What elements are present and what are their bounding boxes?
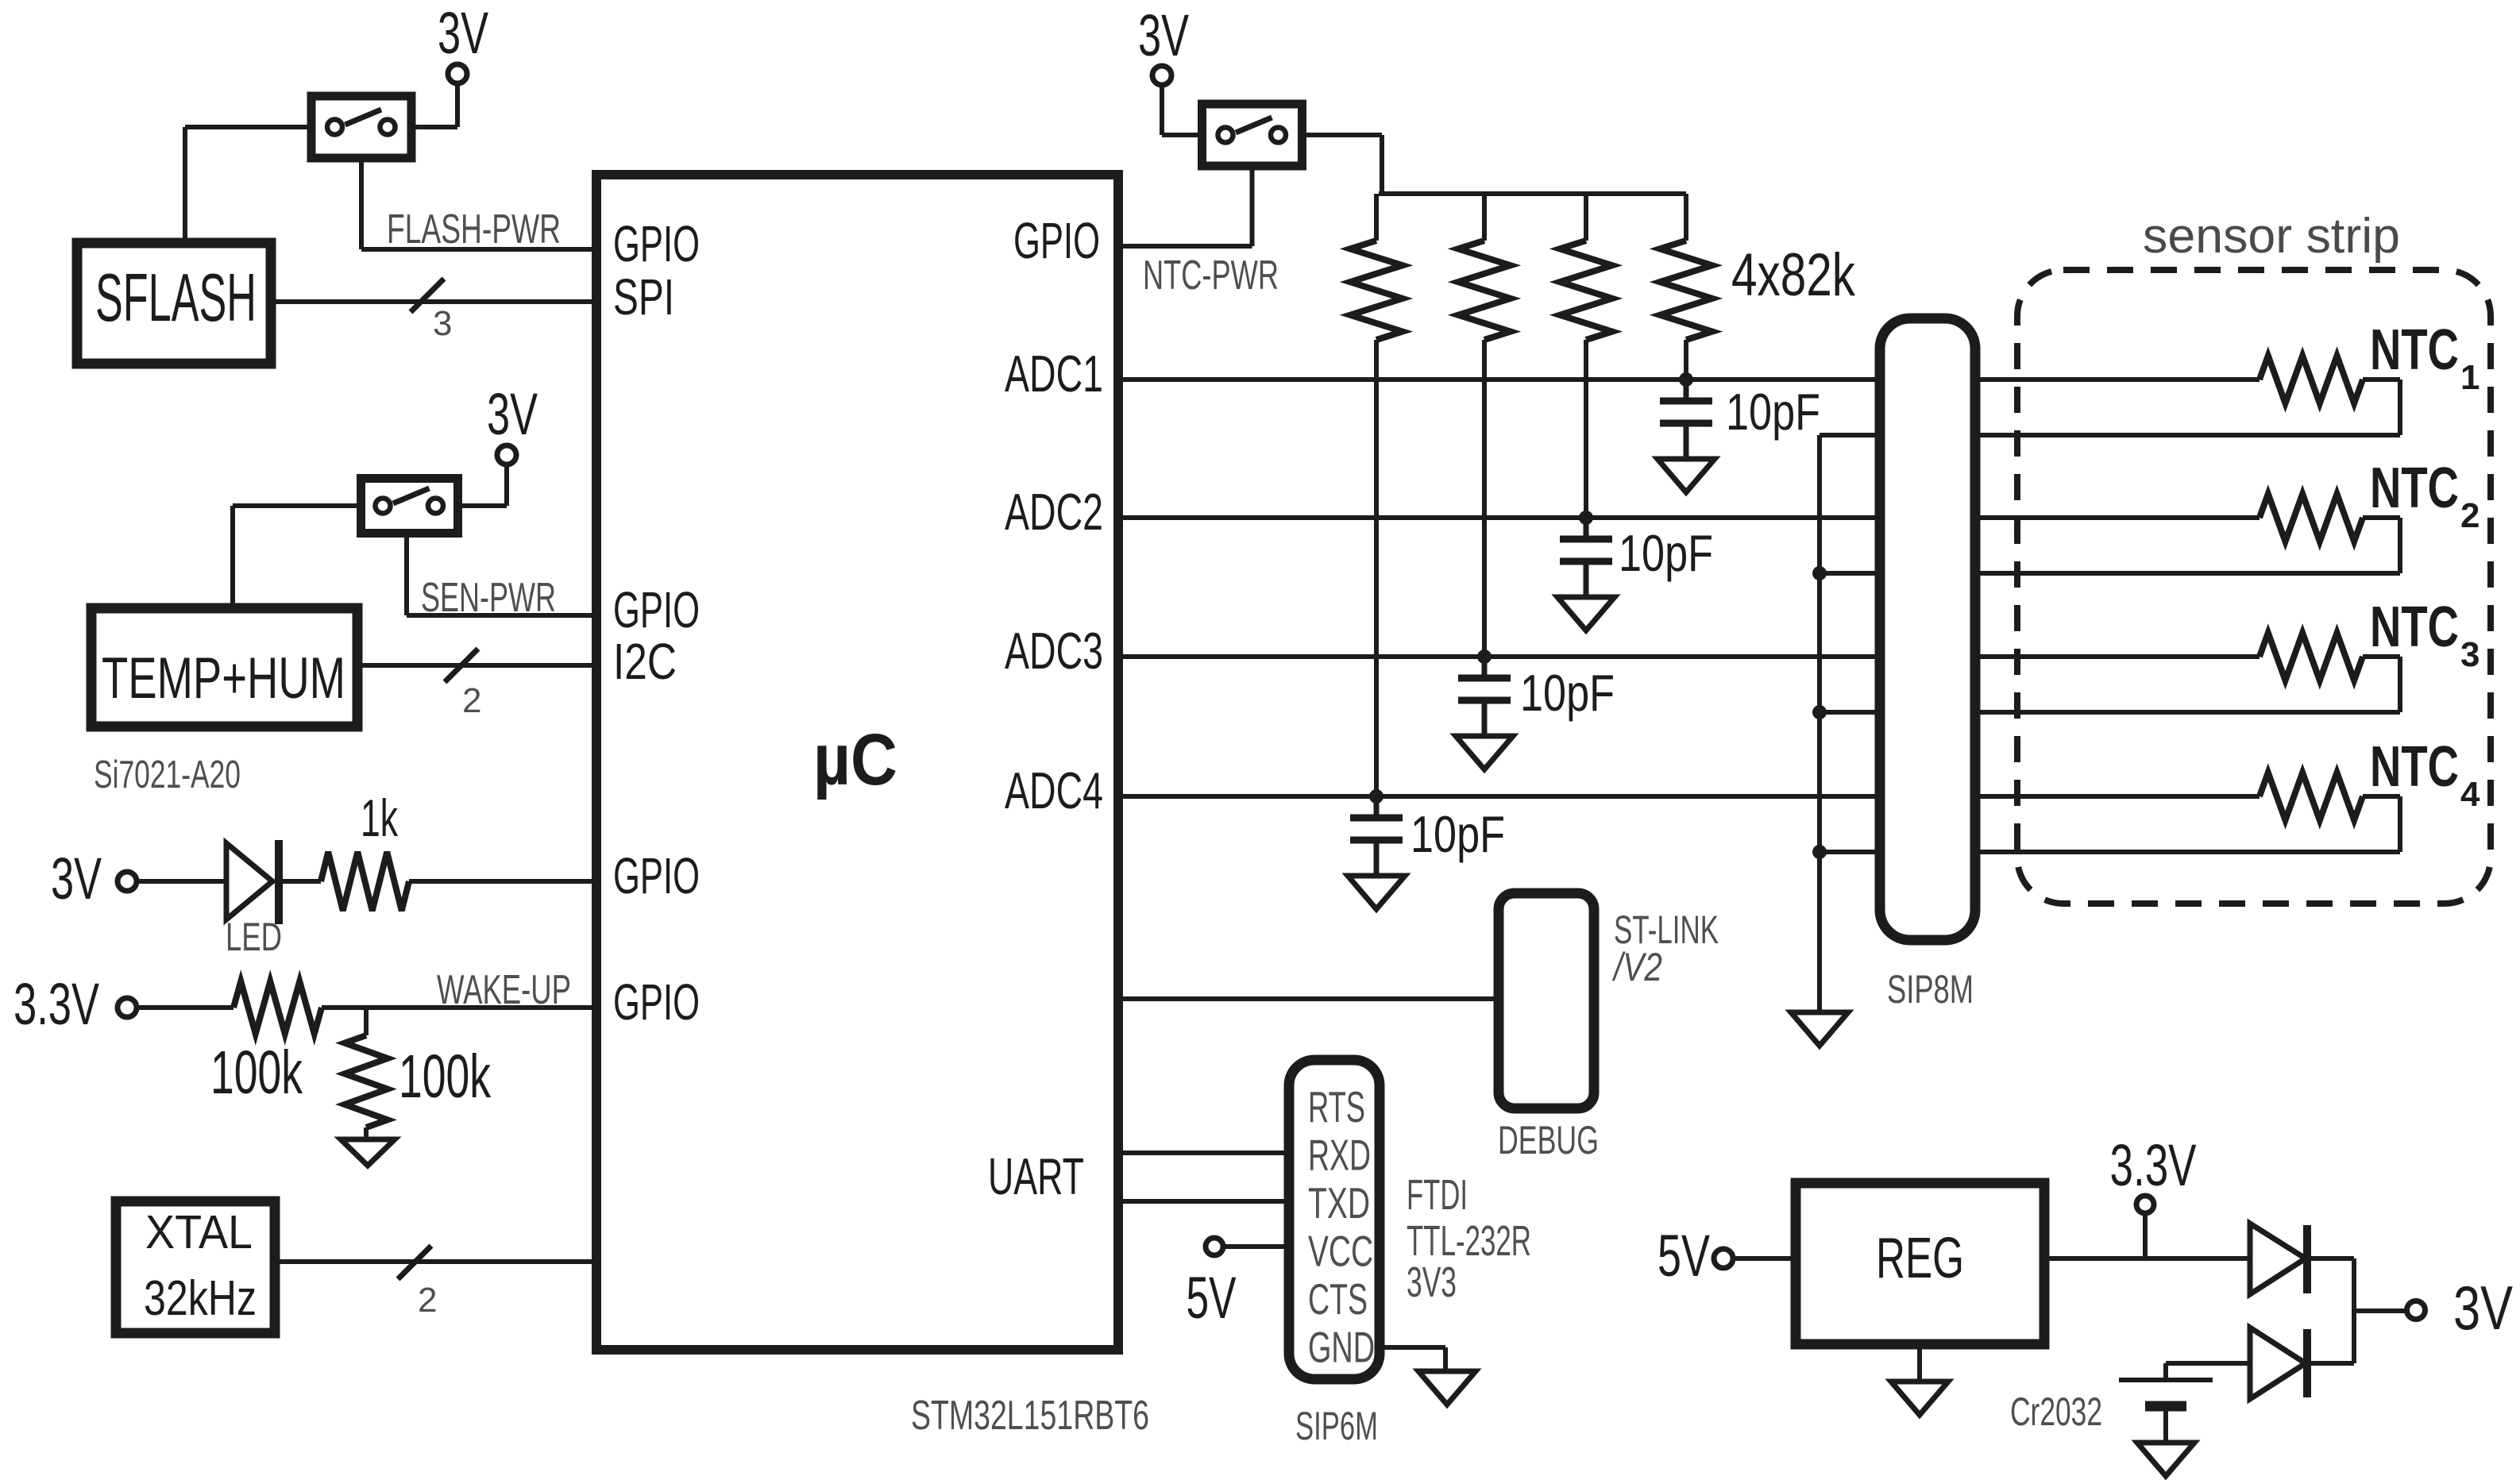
svg-text:2: 2 xyxy=(2460,496,2479,535)
svg-text:GPIO: GPIO xyxy=(1013,212,1100,269)
svg-text:Cr2032: Cr2032 xyxy=(2010,1389,2102,1434)
svg-text:32kHz: 32kHz xyxy=(144,1271,257,1326)
svg-text:4: 4 xyxy=(2460,775,2480,814)
svg-text:NTC: NTC xyxy=(2370,595,2459,659)
svg-text:Si7021-A20: Si7021-A20 xyxy=(94,753,241,796)
svg-text:/V2: /V2 xyxy=(1612,945,1663,989)
svg-text:GPIO: GPIO xyxy=(613,847,700,904)
svg-text:10pF: 10pF xyxy=(1411,805,1505,863)
svg-text:100k: 100k xyxy=(399,1043,491,1111)
svg-text:NTC: NTC xyxy=(2370,457,2459,520)
svg-text:3V: 3V xyxy=(2453,1273,2513,1343)
svg-text:2: 2 xyxy=(462,681,481,720)
svg-text:3: 3 xyxy=(2460,635,2479,674)
svg-text:GPIO: GPIO xyxy=(613,215,700,272)
svg-text:CTS: CTS xyxy=(1308,1274,1368,1324)
svg-text:5V: 5V xyxy=(1187,1265,1237,1331)
svg-text:3.3V: 3.3V xyxy=(14,971,99,1037)
svg-text:3V3: 3V3 xyxy=(1407,1258,1457,1306)
svg-text:TXD: TXD xyxy=(1308,1178,1370,1228)
svg-text:XTAL: XTAL xyxy=(145,1206,253,1258)
svg-text:sensor strip: sensor strip xyxy=(2143,209,2400,264)
svg-text:DEBUG: DEBUG xyxy=(1498,1118,1599,1162)
svg-text:1: 1 xyxy=(2460,358,2479,397)
svg-text:GPIO: GPIO xyxy=(613,581,700,638)
svg-text:2: 2 xyxy=(418,1281,437,1320)
svg-text:ADC2: ADC2 xyxy=(1005,483,1103,541)
svg-text:SFLASH: SFLASH xyxy=(95,260,257,336)
svg-text:RTS: RTS xyxy=(1308,1082,1365,1131)
svg-text:FTDI: FTDI xyxy=(1407,1171,1468,1219)
svg-text:3V: 3V xyxy=(1138,2,1189,68)
svg-text:WAKE-UP: WAKE-UP xyxy=(437,967,571,1013)
svg-text:10pF: 10pF xyxy=(1619,524,1713,582)
svg-text:100k: 100k xyxy=(210,1039,303,1107)
svg-text:ADC3: ADC3 xyxy=(1005,622,1103,680)
svg-text:RXD: RXD xyxy=(1308,1131,1371,1180)
svg-text:NTC-PWR: NTC-PWR xyxy=(1143,252,1279,299)
svg-text:3.3V: 3.3V xyxy=(2110,1132,2197,1198)
svg-text:LED: LED xyxy=(226,915,282,959)
svg-text:3: 3 xyxy=(433,304,452,343)
svg-text:SPI: SPI xyxy=(613,268,674,326)
svg-text:SIP8M: SIP8M xyxy=(1887,967,1974,1012)
svg-text:3V: 3V xyxy=(487,381,538,447)
svg-text:STM32L151RBT6: STM32L151RBT6 xyxy=(911,1393,1149,1439)
svg-text:1k: 1k xyxy=(361,788,399,847)
svg-text:FLASH-PWR: FLASH-PWR xyxy=(387,206,561,252)
svg-text:NTC: NTC xyxy=(2370,735,2459,799)
svg-text:3V: 3V xyxy=(438,0,488,66)
svg-text:10pF: 10pF xyxy=(1520,664,1615,722)
svg-text:GPIO: GPIO xyxy=(613,973,700,1031)
svg-text:SEN-PWR: SEN-PWR xyxy=(421,575,556,621)
svg-text:SIP6M: SIP6M xyxy=(1295,1404,1378,1448)
svg-text:4x82k: 4x82k xyxy=(1731,241,1856,309)
svg-text:TTL-232R: TTL-232R xyxy=(1407,1217,1531,1265)
svg-text:ADC4: ADC4 xyxy=(1005,761,1103,819)
svg-text:GND: GND xyxy=(1308,1323,1375,1372)
svg-text:I2C: I2C xyxy=(613,633,677,690)
svg-text:10pF: 10pF xyxy=(1726,383,1820,441)
svg-text:TEMP+HUM: TEMP+HUM xyxy=(102,646,345,711)
svg-text:NTC: NTC xyxy=(2370,318,2459,382)
svg-text:ADC1: ADC1 xyxy=(1005,345,1103,403)
svg-text:3V: 3V xyxy=(51,846,102,912)
svg-text:REG: REG xyxy=(1876,1227,1964,1290)
svg-text:µC: µC xyxy=(813,719,897,800)
svg-text:VCC: VCC xyxy=(1308,1227,1373,1276)
svg-text:UART: UART xyxy=(988,1147,1084,1205)
svg-text:5V: 5V xyxy=(1657,1223,1710,1289)
